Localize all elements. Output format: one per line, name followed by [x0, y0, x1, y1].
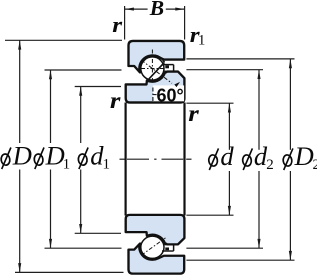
ball vertical centerline [151, 50, 153, 85]
extension line phiD1 top [45, 69, 122, 71]
outer ring (bottom) [129, 243, 185, 273]
dimension line phiD1 [49, 70, 52, 248]
label phiD2 [282, 148, 292, 170]
inner ring (bottom) [126, 72, 185, 103]
B dimension line with arrows [125, 8, 185, 11]
re-stroke inner ring bottom edge [130, 101, 181, 103]
cage tab [165, 247, 169, 250]
svg-text:d: d [220, 141, 234, 171]
cage right wall [173, 65, 175, 72]
dimension line phid1 [79, 87, 82, 234]
svg-text:D: D [12, 140, 32, 170]
extension line phid2 bottom [186, 247, 263, 249]
extension line phiD top [5, 39, 122, 41]
svg-text:60°: 60° [157, 85, 184, 105]
svg-text:2: 2 [313, 157, 318, 173]
centerline (bearing axis) dash-dot segments [120, 158, 192, 160]
ball [141, 57, 164, 80]
ball horizontal centerline [141, 68, 165, 70]
cage right wall [173, 245, 175, 251]
extension line phiD1 bottom [45, 247, 122, 249]
svg-text:1: 1 [198, 33, 206, 49]
cage chord [149, 62, 165, 79]
contact angle diagonal (dash-dot) [142, 238, 166, 255]
cage upper plate [162, 64, 174, 66]
extension line phid1 top [75, 86, 121, 88]
svg-text:2: 2 [266, 157, 274, 173]
svg-text:1: 1 [103, 156, 111, 172]
B extension line left [124, 6, 126, 40]
inner ring (top) [126, 215, 185, 245]
cage arc over ball [155, 55, 165, 62]
bearing upper section [126, 41, 185, 103]
label phid [208, 148, 218, 170]
dimension line phiD [18, 40, 21, 272]
extension line phid2 top [186, 69, 263, 71]
label phid1 [78, 148, 88, 170]
cage tab [165, 65, 169, 68]
svg-text:D: D [294, 141, 314, 171]
ball [141, 236, 164, 258]
contact angle diagonal (dash-dot) [141, 60, 172, 83]
bore silhouette line left [124, 103, 126, 216]
svg-text:1: 1 [63, 156, 71, 172]
cage upper plate [162, 250, 174, 252]
dimension line phiD2 [289, 59, 292, 260]
60 degree label background [153, 85, 184, 101]
contact angle arrowhead [174, 82, 180, 87]
extension line phiD2 bottom [186, 259, 294, 261]
extension line phiD bottom [15, 271, 124, 273]
60 degree vertical reference tick [152, 88, 154, 102]
extension line phid top [186, 102, 233, 104]
extension line phid1 bottom [75, 232, 121, 234]
label phiD [0, 148, 10, 170]
cage lower plate [164, 70, 173, 72]
label backgrounds [0, 143, 33, 170]
svg-text:r: r [110, 87, 122, 113]
dimension line phid [228, 103, 231, 215]
bearing lower section (mirror) [126, 215, 185, 274]
cage lower plate [164, 244, 173, 246]
svg-text:B: B [149, 0, 164, 20]
dimension line phid2 [257, 70, 260, 249]
svg-text:r: r [188, 101, 200, 127]
label phid2 [242, 148, 252, 170]
svg-text:r: r [112, 13, 123, 37]
extension line phid bottom [186, 214, 233, 216]
outer ring (top) [129, 41, 185, 73]
extension line phiD2 top [186, 58, 294, 60]
label phiD1 [34, 148, 44, 170]
bore silhouette line right [183, 103, 185, 216]
B extension line right [184, 6, 186, 40]
